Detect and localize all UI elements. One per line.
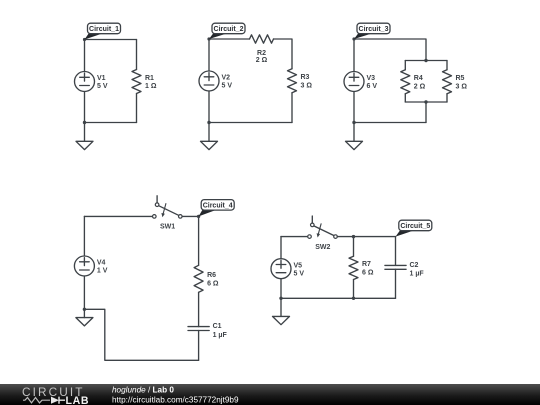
svg-text:V1: V1 [97, 75, 106, 82]
svg-text:R3: R3 [301, 74, 310, 81]
svg-text:http://circuitlab.com/c357772n: http://circuitlab.com/c357772njt9b9 [112, 396, 239, 405]
wire C2 left lower [208, 91, 210, 123]
wire C4 top right [182, 215, 199, 217]
wire C3 ground stem [353, 123, 355, 142]
resistor R3 [288, 69, 297, 93]
node flag Circuit_4 [199, 200, 235, 217]
wire C5 R7 lower [353, 280, 355, 299]
svg-text:R2: R2 [257, 50, 266, 57]
wire C2 top right [274, 39, 293, 69]
node C5 switch-R7 junction [352, 235, 355, 238]
svg-text:5 V: 5 V [222, 83, 233, 90]
wire C5 C2 upper [395, 237, 397, 266]
wire C2 top left [209, 38, 250, 40]
svg-text:1 µF: 1 µF [410, 271, 425, 278]
svg-text:C2: C2 [410, 262, 419, 269]
switch SW1 [153, 196, 183, 218]
svg-text:R7: R7 [362, 261, 371, 268]
svg-text:5 V: 5 V [97, 83, 108, 90]
svg-text:hoglunde / Lab 0: hoglunde / Lab 0 [112, 386, 174, 395]
node C1 bottom junction [83, 121, 86, 124]
wire C1 right upper [136, 40, 138, 70]
wire C4 below cap [198, 331, 200, 361]
wire C4 ground stem [83, 309, 85, 317]
CircuitLab logo diode symbol [51, 397, 59, 404]
svg-text:2 Ω: 2 Ω [256, 57, 268, 64]
wire C1 left lower [84, 92, 86, 123]
wire C3 left par upper [404, 61, 406, 70]
node flag Circuit_2 [209, 23, 245, 39]
ground (circuit 1) [76, 141, 93, 149]
node C2 top-left [207, 37, 210, 40]
wire C3 top [354, 39, 426, 61]
svg-text:6 Ω: 6 Ω [207, 280, 219, 287]
svg-text:Circuit_3: Circuit_3 [359, 26, 389, 33]
wire C2 bottom [209, 122, 292, 124]
wire C5 ground stem [280, 298, 282, 316]
svg-text:R4: R4 [414, 75, 423, 82]
resistor R4 [401, 70, 410, 94]
svg-text:Circuit_1: Circuit_1 [89, 26, 119, 33]
switch SW2 [308, 216, 338, 238]
wire C1 right lower [136, 94, 138, 123]
wire C5 left upper [280, 237, 282, 259]
svg-text:R5: R5 [456, 75, 465, 82]
node C5 bottom junction [352, 297, 355, 300]
svg-text:R6: R6 [207, 272, 216, 279]
svg-text:V4: V4 [97, 260, 106, 267]
svg-text:6 V: 6 V [367, 83, 378, 90]
resistor R6 [194, 265, 203, 292]
wire C4 left lower [83, 276, 85, 309]
svg-text:3 Ω: 3 Ω [301, 82, 313, 89]
ground (circuit 4) [76, 318, 93, 326]
node flag Circuit_5 [396, 220, 432, 236]
wire C4 right upper [198, 216, 200, 265]
wire C3 right par lower [446, 94, 448, 102]
svg-text:R1: R1 [145, 75, 154, 82]
node C3 bottom junction [352, 121, 355, 124]
svg-text:6 Ω: 6 Ω [362, 269, 374, 276]
svg-text:5 V: 5 V [294, 270, 305, 277]
node C2 bottom junction [207, 121, 210, 124]
svg-text:V3: V3 [367, 75, 376, 82]
wire C4 bottom return [84, 309, 198, 360]
wire C4 top left [84, 215, 152, 217]
svg-text:V2: V2 [222, 75, 231, 82]
wire C5 R7 upper [353, 237, 355, 257]
svg-text:1 V: 1 V [97, 268, 108, 275]
wire C2 right lower [291, 93, 293, 123]
wire C1 top [85, 39, 137, 41]
svg-text:Circuit_5: Circuit_5 [400, 223, 430, 230]
wire C3 right drop [425, 102, 427, 123]
wire C3 parallel top bar [405, 60, 447, 62]
svg-text:SW2: SW2 [315, 244, 330, 251]
wire C4 left upper [83, 216, 85, 256]
svg-text:V5: V5 [294, 262, 303, 269]
node C4 switch-R6 junction [197, 215, 200, 218]
svg-text:1 µF: 1 µF [213, 332, 228, 339]
node flag Circuit_3 [354, 23, 390, 39]
ground (circuit 5) [273, 316, 290, 324]
wire C5 top left [281, 236, 308, 238]
svg-text:1 Ω: 1 Ω [145, 83, 157, 90]
wire C5 C2 lower [395, 269, 397, 298]
wire C4 mid lower [198, 292, 200, 326]
capacitor C2 [385, 265, 406, 269]
wire C3 left lower [353, 92, 355, 123]
voltage source V5 [271, 259, 291, 279]
wire C3 right par upper [446, 61, 448, 70]
resistor R2 [250, 35, 274, 43]
wire C1 left upper [84, 40, 86, 72]
svg-text:LAB: LAB [66, 395, 90, 405]
resistor R7 [349, 256, 358, 279]
voltage source V4 [74, 256, 94, 276]
svg-text:Circuit_4: Circuit_4 [203, 202, 233, 209]
voltage source V2 [199, 71, 219, 91]
svg-text:Circuit_2: Circuit_2 [214, 26, 244, 33]
voltage source V1 [75, 72, 95, 92]
wire C3 left par lower [404, 94, 406, 102]
wire C5 top right [337, 236, 395, 238]
node C4 ground junction [83, 308, 86, 311]
wire C1 ground stem [84, 123, 86, 142]
capacitor C1 [188, 327, 209, 331]
node C5 ground junction [279, 297, 282, 300]
svg-text:SW1: SW1 [160, 224, 175, 231]
CircuitLab logo resistor zigzag [23, 398, 50, 403]
ground (circuit 2) [201, 141, 218, 149]
wire C1 bottom [85, 122, 137, 124]
resistor R5 [443, 70, 452, 94]
wire C3 bottom [354, 122, 426, 124]
svg-text:3 Ω: 3 Ω [456, 83, 468, 90]
svg-text:2 Ω: 2 Ω [414, 83, 426, 90]
footer logo bar [0, 384, 540, 405]
wire C5 bottom [281, 297, 396, 299]
ground (circuit 3) [346, 141, 363, 149]
node C3 parallel bottom junction [424, 100, 427, 103]
node C3 parallel top junction [424, 59, 427, 62]
wire C5 left lower [280, 279, 282, 299]
wire C3 parallel bottom bar [405, 101, 447, 103]
resistor R1 [132, 70, 141, 94]
voltage source V3 [344, 72, 364, 92]
node flag Circuit_1 [85, 23, 121, 39]
wire C2 left upper [208, 39, 210, 71]
svg-text:C1: C1 [213, 323, 222, 330]
node C1 top-left [83, 38, 86, 41]
wire C3 left upper [353, 39, 355, 72]
node C3 top-left [352, 37, 355, 40]
wire C2 ground stem [208, 123, 210, 142]
